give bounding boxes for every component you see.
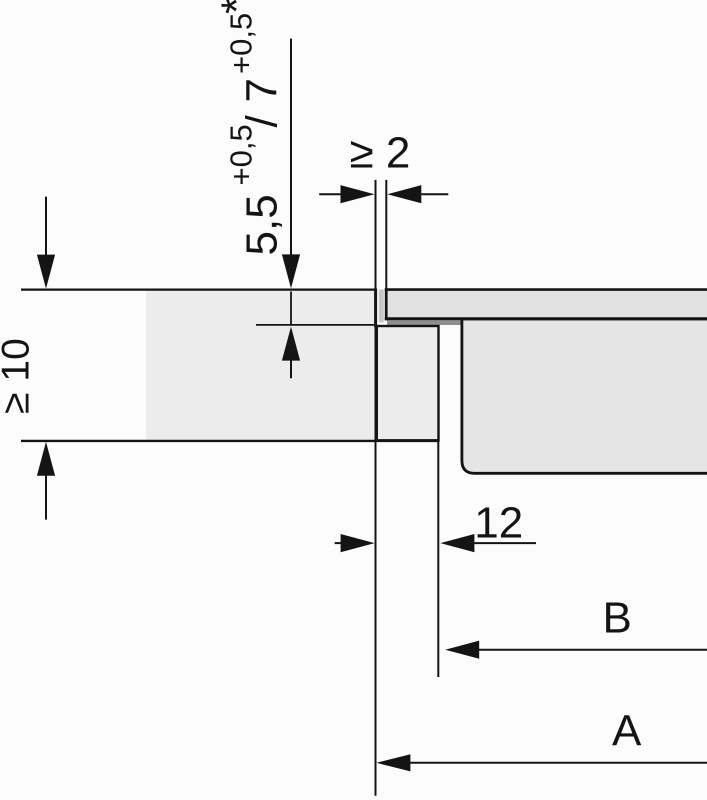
svg-text:+0,5: +0,5 (223, 13, 258, 74)
svg-text:7: 7 (238, 78, 287, 102)
svg-text:≥ 2: ≥ 2 (350, 128, 411, 177)
svg-text:12: 12 (474, 499, 523, 548)
svg-text:*: * (212, 0, 261, 14)
svg-text:B: B (603, 594, 632, 643)
svg-text:/: / (238, 115, 287, 128)
svg-text:5,5: 5,5 (238, 194, 287, 255)
svg-text:+0,5: +0,5 (223, 124, 258, 185)
svg-text:≥ 10: ≥ 10 (0, 338, 38, 414)
svg-text:A: A (612, 707, 642, 756)
